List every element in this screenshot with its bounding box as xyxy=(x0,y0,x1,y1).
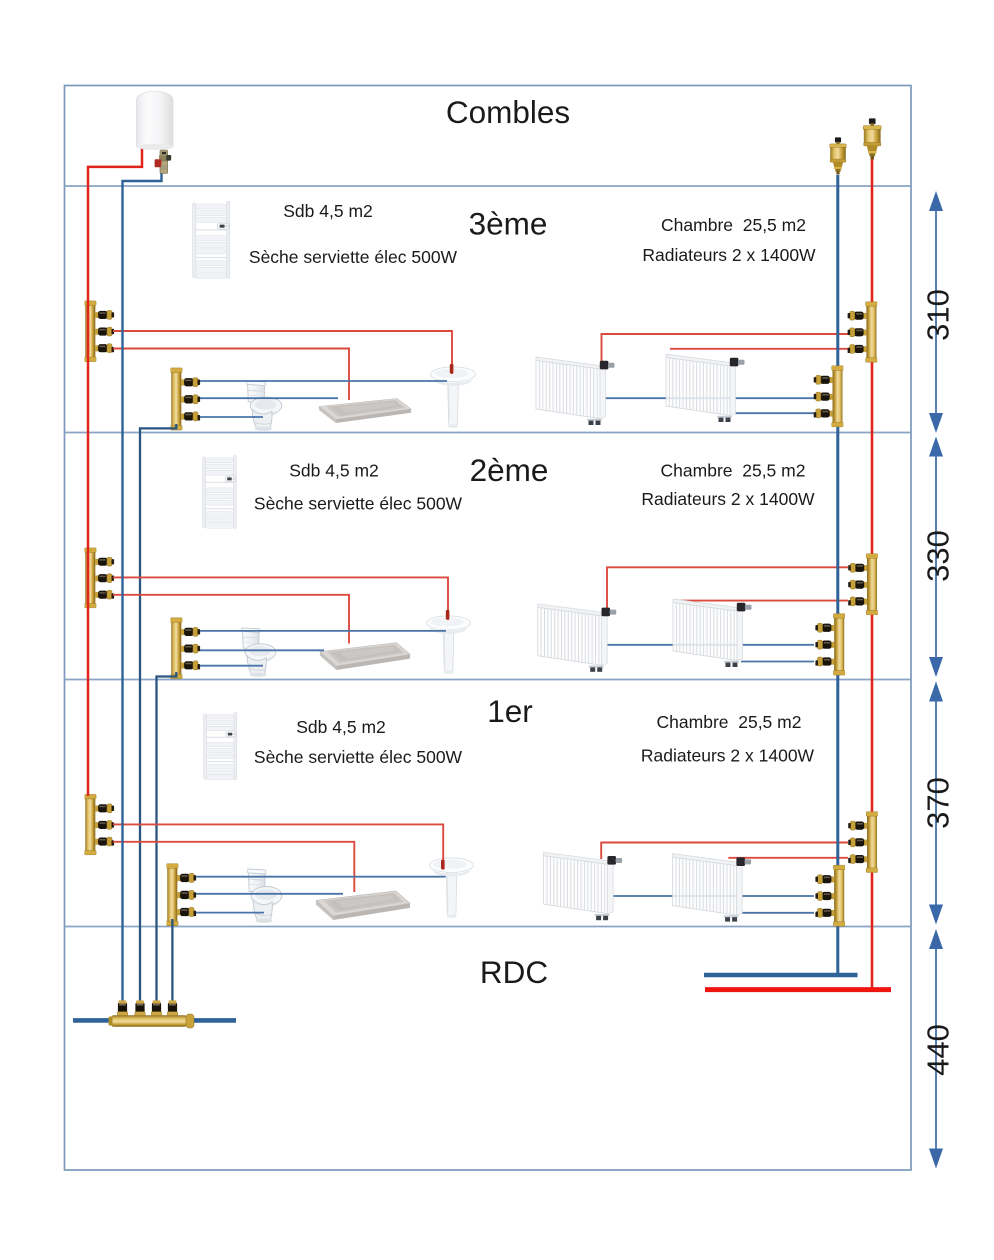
wire red: hot main left riser (from vessel down to 1er manifold) xyxy=(88,148,142,796)
svg-text:3ème: 3ème xyxy=(469,206,548,242)
wire navy: bathroom manifold return drop 2ème xyxy=(157,672,177,1004)
wire blue: RDC thick collector line xyxy=(73,1018,236,1023)
wire blue: return main left (valve down to RDC manifold port 1) xyxy=(123,170,162,1004)
wire red: left manifold to shower 2ème xyxy=(113,595,349,644)
svg-text:2ème: 2ème xyxy=(470,452,549,488)
wire blue: radiator 1 return 3ème xyxy=(604,397,814,399)
wire red: hot main right (vent down to RDC) xyxy=(871,158,874,990)
wire navy: 2eme bathroom return vertical xyxy=(156,1003,158,1014)
wire red: left manifold to sink 1er xyxy=(113,824,443,869)
toilet 2ème xyxy=(242,628,276,677)
valve: safety group under vessel (red handle) xyxy=(155,150,172,174)
dimension arrow 330 xyxy=(921,437,956,678)
svg-text:Radiateurs 2 x 1400W: Radiateurs 2 x 1400W xyxy=(641,746,815,766)
manifold right return 1er xyxy=(815,865,845,926)
air vent right (red main) xyxy=(863,118,881,159)
svg-text:Chambre 25,5 m2: Chambre 25,5 m2 xyxy=(657,712,802,732)
wire blue: bathroom manifold to shower 2ème xyxy=(200,649,324,651)
svg-text:Chambre 25,5 m2: Chambre 25,5 m2 xyxy=(661,461,806,481)
svg-text:Sdb 4,5 m2: Sdb 4,5 m2 xyxy=(283,201,373,221)
manifold bathroom 3ème xyxy=(171,368,201,430)
shower tray 2ème xyxy=(320,643,410,670)
wire red: left manifold to shower 3ème xyxy=(113,349,349,401)
manifold right return 2ème xyxy=(815,614,845,675)
wire blue: radiator 2 return 3ème xyxy=(733,412,814,414)
wire blue: radiator 2 return 1er xyxy=(737,912,814,914)
wire blue: radiator 1 return 2ème xyxy=(606,644,815,646)
svg-text:Combles: Combles xyxy=(446,94,570,130)
sink 1er xyxy=(429,858,473,918)
wire navy: bathroom manifold return drop 3ème xyxy=(140,424,176,1004)
wire red: left manifold to shower 1er xyxy=(113,842,354,892)
expansion vessel (white cylinder) xyxy=(137,89,174,149)
wire: floor slab line 1 xyxy=(65,185,912,187)
wire blue: bathroom manifold to sink 1er xyxy=(196,876,446,878)
wire blue: bathroom manifold to toilet 1er xyxy=(196,912,264,914)
toilet 3ème xyxy=(247,381,282,431)
wire: house outer border xyxy=(65,86,912,1171)
wire red: thick RDC hot stub right xyxy=(705,987,891,992)
manifold RDC collector (horizontal, 4 ports) xyxy=(109,1014,195,1028)
manifold left hot-water 3ème xyxy=(85,301,115,362)
wire blue: bathroom manifold to shower 3ème xyxy=(200,397,338,399)
wire blue: radiator 1 return 1er xyxy=(612,895,815,897)
toilet 1er xyxy=(248,869,282,923)
radiator 2 2ème (panel radiator 1400W) xyxy=(673,599,752,667)
svg-text:Sèche serviette élec 500W: Sèche serviette élec 500W xyxy=(249,247,458,267)
wire navy: RDC manifold vertical port 2 feed (3eme bathroom return) xyxy=(139,1003,141,1014)
svg-text:Radiateurs 2 x 1400W: Radiateurs 2 x 1400W xyxy=(642,245,816,265)
wire: floor slab line 2 xyxy=(65,432,912,434)
wire red: radiator 1 feed riser 3ème xyxy=(602,334,849,364)
sink 3ème xyxy=(431,367,476,428)
radiator 1 2ème (panel radiator 1400W) xyxy=(538,604,617,672)
manifold bathroom 2ème xyxy=(171,618,201,679)
wire red: left manifold to sink 2ème xyxy=(113,577,448,620)
svg-text:Sdb 4,5 m2: Sdb 4,5 m2 xyxy=(289,461,379,481)
wire red: radiator 2 feed 1er xyxy=(728,857,848,859)
svg-text:Sèche serviette élec 500W: Sèche serviette élec 500W xyxy=(254,747,463,767)
air vent left (blue main) xyxy=(830,137,847,174)
manifold left hot-water 2ème xyxy=(85,548,115,608)
manifold right hot distribution 2ème xyxy=(848,554,878,615)
manifold left hot-water 1er xyxy=(85,794,115,855)
wire blue: thick RDC return stub right xyxy=(704,973,858,978)
svg-text:370: 370 xyxy=(921,777,956,829)
manifold right return 3ème xyxy=(814,366,844,427)
svg-text:310: 310 xyxy=(921,289,956,341)
valve: sink hot water valve 1er xyxy=(441,860,445,870)
wire blue: bathroom manifold to sink 2ème xyxy=(200,630,446,632)
wire red: radiator 2 feed 3ème xyxy=(670,348,848,350)
towel radiator 3ème (electric) xyxy=(193,202,230,279)
wire red: left manifold to sink 3ème xyxy=(113,331,452,374)
valve: RDC collector port 1 xyxy=(117,1000,127,1015)
valve: RDC collector port 4 xyxy=(167,1000,177,1015)
valve: RDC collector port 2 xyxy=(135,1000,145,1015)
towel radiator 2ème (electric) xyxy=(203,455,237,528)
wire blue: radiator 2 return 2ème xyxy=(741,661,814,663)
radiator 2 1er (panel radiator 1400W) xyxy=(673,854,752,922)
wire red: radiator 1 feed riser 2ème xyxy=(607,567,848,613)
dimension arrow 440 xyxy=(921,929,956,1169)
wire navy: bathroom manifold return drop 1er xyxy=(171,919,173,1004)
svg-text:Radiateurs 2 x 1400W: Radiateurs 2 x 1400W xyxy=(641,489,815,509)
svg-text:Sèche serviette élec 500W: Sèche serviette élec 500W xyxy=(254,494,463,514)
wire: floor slab line 3 xyxy=(65,679,912,681)
wire blue: return main right (vent down to RDC) xyxy=(704,175,838,975)
valve: RDC collector port 3 xyxy=(151,1000,161,1015)
svg-text:Sdb 4,5 m2: Sdb 4,5 m2 xyxy=(296,717,386,737)
manifold bathroom 1er xyxy=(167,864,197,926)
wire blue: bathroom manifold to toilet 3ème xyxy=(200,416,263,418)
radiator 1 3ème (panel radiator 1400W) xyxy=(536,357,615,425)
manifold right hot distribution 3ème xyxy=(848,302,878,363)
svg-text:440: 440 xyxy=(921,1024,956,1076)
shower tray 1er xyxy=(316,891,410,920)
valve: sink hot water valve 2ème xyxy=(446,610,450,620)
svg-text:RDC: RDC xyxy=(480,954,548,990)
wire red: radiator 2 feed 2ème xyxy=(677,600,848,602)
radiator 1 1er (panel radiator 1400W) xyxy=(544,852,623,920)
radiator 2 3ème (panel radiator 1400W) xyxy=(666,354,745,422)
shower tray 3ème xyxy=(319,399,411,424)
towel radiator 1er (electric) xyxy=(204,712,237,780)
svg-text:1er: 1er xyxy=(487,693,533,729)
wire blue: bathroom manifold to shower 1er xyxy=(196,893,343,895)
wire: floor slab line 4 xyxy=(65,926,912,928)
dimension arrow 370 xyxy=(921,682,956,925)
valve: sink hot water valve 3ème xyxy=(450,364,454,374)
wire red: radiator 1 feed riser 1er xyxy=(601,843,848,860)
svg-text:330: 330 xyxy=(921,530,956,582)
svg-text:Chambre 25,5 m2: Chambre 25,5 m2 xyxy=(661,215,806,235)
sink 2ème xyxy=(426,616,470,674)
manifold right hot distribution 1er xyxy=(848,812,878,873)
wire blue: bathroom manifold to toilet 2ème xyxy=(200,665,263,667)
wire blue: bathroom manifold to sink 3ème xyxy=(200,380,447,382)
dimension arrow 310 xyxy=(921,191,956,433)
